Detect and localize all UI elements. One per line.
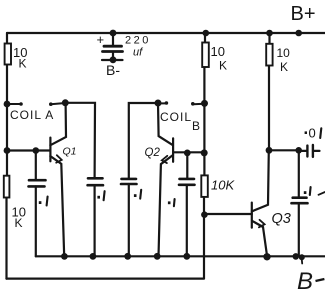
svg-text:B-: B- <box>106 62 120 78</box>
svg-text:K: K <box>280 60 288 74</box>
svg-text:B+: B+ <box>291 3 316 25</box>
svg-text:Q1: Q1 <box>63 146 77 158</box>
svg-text:COIL: COIL <box>160 110 192 124</box>
svg-text:10: 10 <box>277 46 291 60</box>
svg-text:Q3: Q3 <box>272 211 291 227</box>
svg-text:0: 0 <box>309 125 316 140</box>
svg-text:COIL A: COIL A <box>10 108 54 122</box>
svg-text:10: 10 <box>211 44 225 59</box>
svg-text:K: K <box>219 59 227 73</box>
svg-text:Q2: Q2 <box>145 147 161 159</box>
svg-text:uf: uf <box>133 47 143 59</box>
svg-text:B: B <box>192 119 200 133</box>
svg-text:B: B <box>297 268 313 295</box>
svg-text:10K: 10K <box>211 178 235 193</box>
svg-text:K: K <box>15 216 23 230</box>
svg-text:+: + <box>97 32 105 47</box>
svg-text:K: K <box>19 57 27 71</box>
svg-text:220: 220 <box>125 35 151 47</box>
